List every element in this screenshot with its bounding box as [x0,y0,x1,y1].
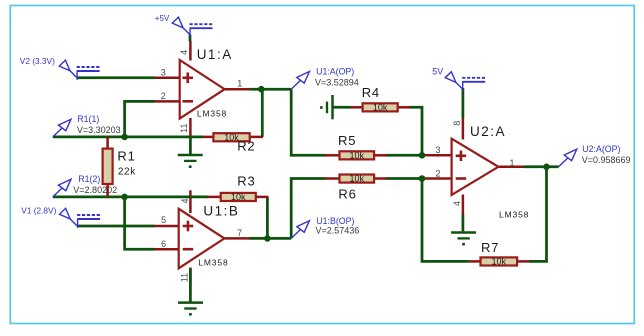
power terminal V2 (3.3V) [77,67,100,80]
pin 1 U2:A [498,166,524,169]
svg-text:LM358: LM358 [197,109,227,119]
wire R5 right to U2:A pin3 [386,154,424,157]
pin 4 U1:A [189,41,192,61]
node U1:B output [264,235,271,242]
svg-text:1: 1 [237,79,242,89]
resistor R3 (10k) [207,192,268,202]
svg-text:7: 7 [237,228,242,238]
svg-text:10k: 10k [231,192,246,202]
ground U2:A [451,233,476,246]
probe R1(2) [53,179,71,197]
svg-text:R1: R1 [117,149,135,164]
svg-text:2: 2 [435,168,440,178]
svg-text:R5: R5 [338,133,356,148]
svg-text:6: 6 [161,239,166,249]
resistor R2 (10k) [203,132,263,142]
wire U1:B output [249,237,291,240]
wire U1:A pin11 to ground [189,137,192,155]
wire 5V terminal to U2:A pin8 [462,88,465,118]
svg-text:V=3.30203: V=3.30203 [77,125,121,135]
node U2:A pin3 [419,152,426,159]
svg-text:10k: 10k [492,257,507,267]
svg-text:11: 11 [179,124,189,133]
wire R6 right to U2:A pin2 [386,177,424,180]
svg-text:R7: R7 [481,240,499,255]
resistor R5 (10k) [325,151,387,161]
svg-text:3: 3 [161,67,166,77]
wire output down to R7 right [529,167,546,262]
svg-text:4: 4 [179,50,189,55]
svg-text:V=2.80202: V=2.80202 [73,185,117,195]
wire R1(1) node horizontal [53,136,204,139]
svg-text:R2: R2 [237,138,255,153]
wire U2:A pin4 to ground [462,214,465,231]
svg-text:4: 4 [452,201,462,206]
wire R4 left to ground [334,106,351,109]
probe U1:A(OP) [291,72,309,90]
svg-text:R3: R3 [237,174,255,189]
pin 11 U1:A [189,118,192,137]
wire V1 terminal to U1:B pin5 [77,225,154,228]
wire U1:A output to corner [250,88,292,91]
pin 11 U1:B [189,268,192,287]
svg-text:V=3.52894: V=3.52894 [315,78,359,88]
svg-text:V2 (3.3V): V2 (3.3V) [20,56,55,66]
power terminal +5V [190,24,213,37]
op-amp U1:A [180,60,225,119]
ground U1:A [178,155,203,168]
op-amp U1:B [179,209,225,268]
pin 3 U1:A [154,77,180,80]
pin 5 U1:B [154,225,180,228]
power terminal 5V [462,78,485,91]
node U2:A pin2 [419,175,426,182]
svg-text:U2:A(OP): U2:A(OP) [582,144,620,154]
op-amp U2:A [452,139,499,195]
wire R3 right vertical down to output [266,197,269,239]
resistor R4 (10k) [350,103,410,113]
svg-text:V=0.958669: V=0.958669 [582,155,631,165]
resistor R6 (10k) [325,174,387,184]
pin 2 U2:A [424,177,452,180]
svg-text:4: 4 [180,198,190,203]
pin 4 U2:A [462,195,465,215]
pin 3 U2:A [424,154,452,157]
pin 2 U1:A [154,100,180,103]
svg-text:1: 1 [509,158,514,168]
svg-text:U1:A(OP): U1:A(OP) [316,67,354,77]
svg-text:LM358: LM358 [499,210,529,220]
wire corner down to R5 level [291,89,326,155]
svg-text:R4: R4 [362,85,380,100]
wire U1:A pin2 elbow [125,101,155,136]
svg-text:+5V: +5V [155,14,170,23]
wire V2 terminal to U1:A pin3 [77,76,155,79]
pin 7 U1:B [224,237,251,240]
wire R2 right vertical to output [261,89,264,137]
svg-text:10k: 10k [350,174,365,184]
wire R4 right elbow down to pin3 node [409,107,422,155]
wire R6 left vertical from U1:B output [291,179,326,239]
wire U1:B pin11 to ground [189,269,192,303]
pin 4 U1:B [189,190,192,213]
svg-text:LM358: LM358 [198,257,228,267]
svg-text:5: 5 [161,215,166,225]
pin 8 U2:A [462,117,465,140]
ground (left of R4, rotated) [320,95,332,119]
svg-text:V1 (2.8V): V1 (2.8V) [21,205,56,215]
svg-text:10k: 10k [350,151,365,161]
svg-text:5V: 5V [432,67,443,77]
node R1 bottom [121,194,128,201]
node R1 top [121,134,128,141]
node U1:A output [258,86,265,93]
svg-text:2: 2 [161,91,166,101]
probe U1:B(OP) [291,221,309,239]
ground U1:B [178,303,203,316]
svg-text:R6: R6 [338,186,356,201]
pin 6 U1:B [154,248,180,251]
svg-text:U1:B: U1:B [203,204,239,219]
svg-text:10k: 10k [373,103,388,113]
wire +5V terminal stub [189,35,192,42]
svg-text:U1:A: U1:A [197,47,233,62]
svg-text:3: 3 [435,145,440,155]
svg-text:8: 8 [452,121,462,126]
svg-text:R1(2): R1(2) [78,174,100,184]
wire R1(2) node horizontal [53,196,208,199]
svg-text:U1:B(OP): U1:B(OP) [316,216,354,226]
probe U2:A(OP) [559,149,577,167]
wire pin2 node down to R7 [422,179,469,262]
pin 1 U1:A [224,88,250,91]
svg-text:22k: 22k [118,166,136,177]
svg-text:V=2.57436: V=2.57436 [316,226,360,236]
wire U2:A output [523,165,558,168]
svg-text:U2:A: U2:A [470,124,506,139]
wire pin6 elbow from R1(2) node [125,197,155,249]
power terminal V1 (2.8V) [77,215,100,228]
resistor R7 (10k) [469,257,530,267]
probe R1(1) [53,119,71,137]
node U2:A output [543,164,550,171]
svg-text:11: 11 [180,273,190,282]
resistor R1 (vertical 22k) [103,137,113,197]
svg-text:R1(1): R1(1) [77,114,99,124]
